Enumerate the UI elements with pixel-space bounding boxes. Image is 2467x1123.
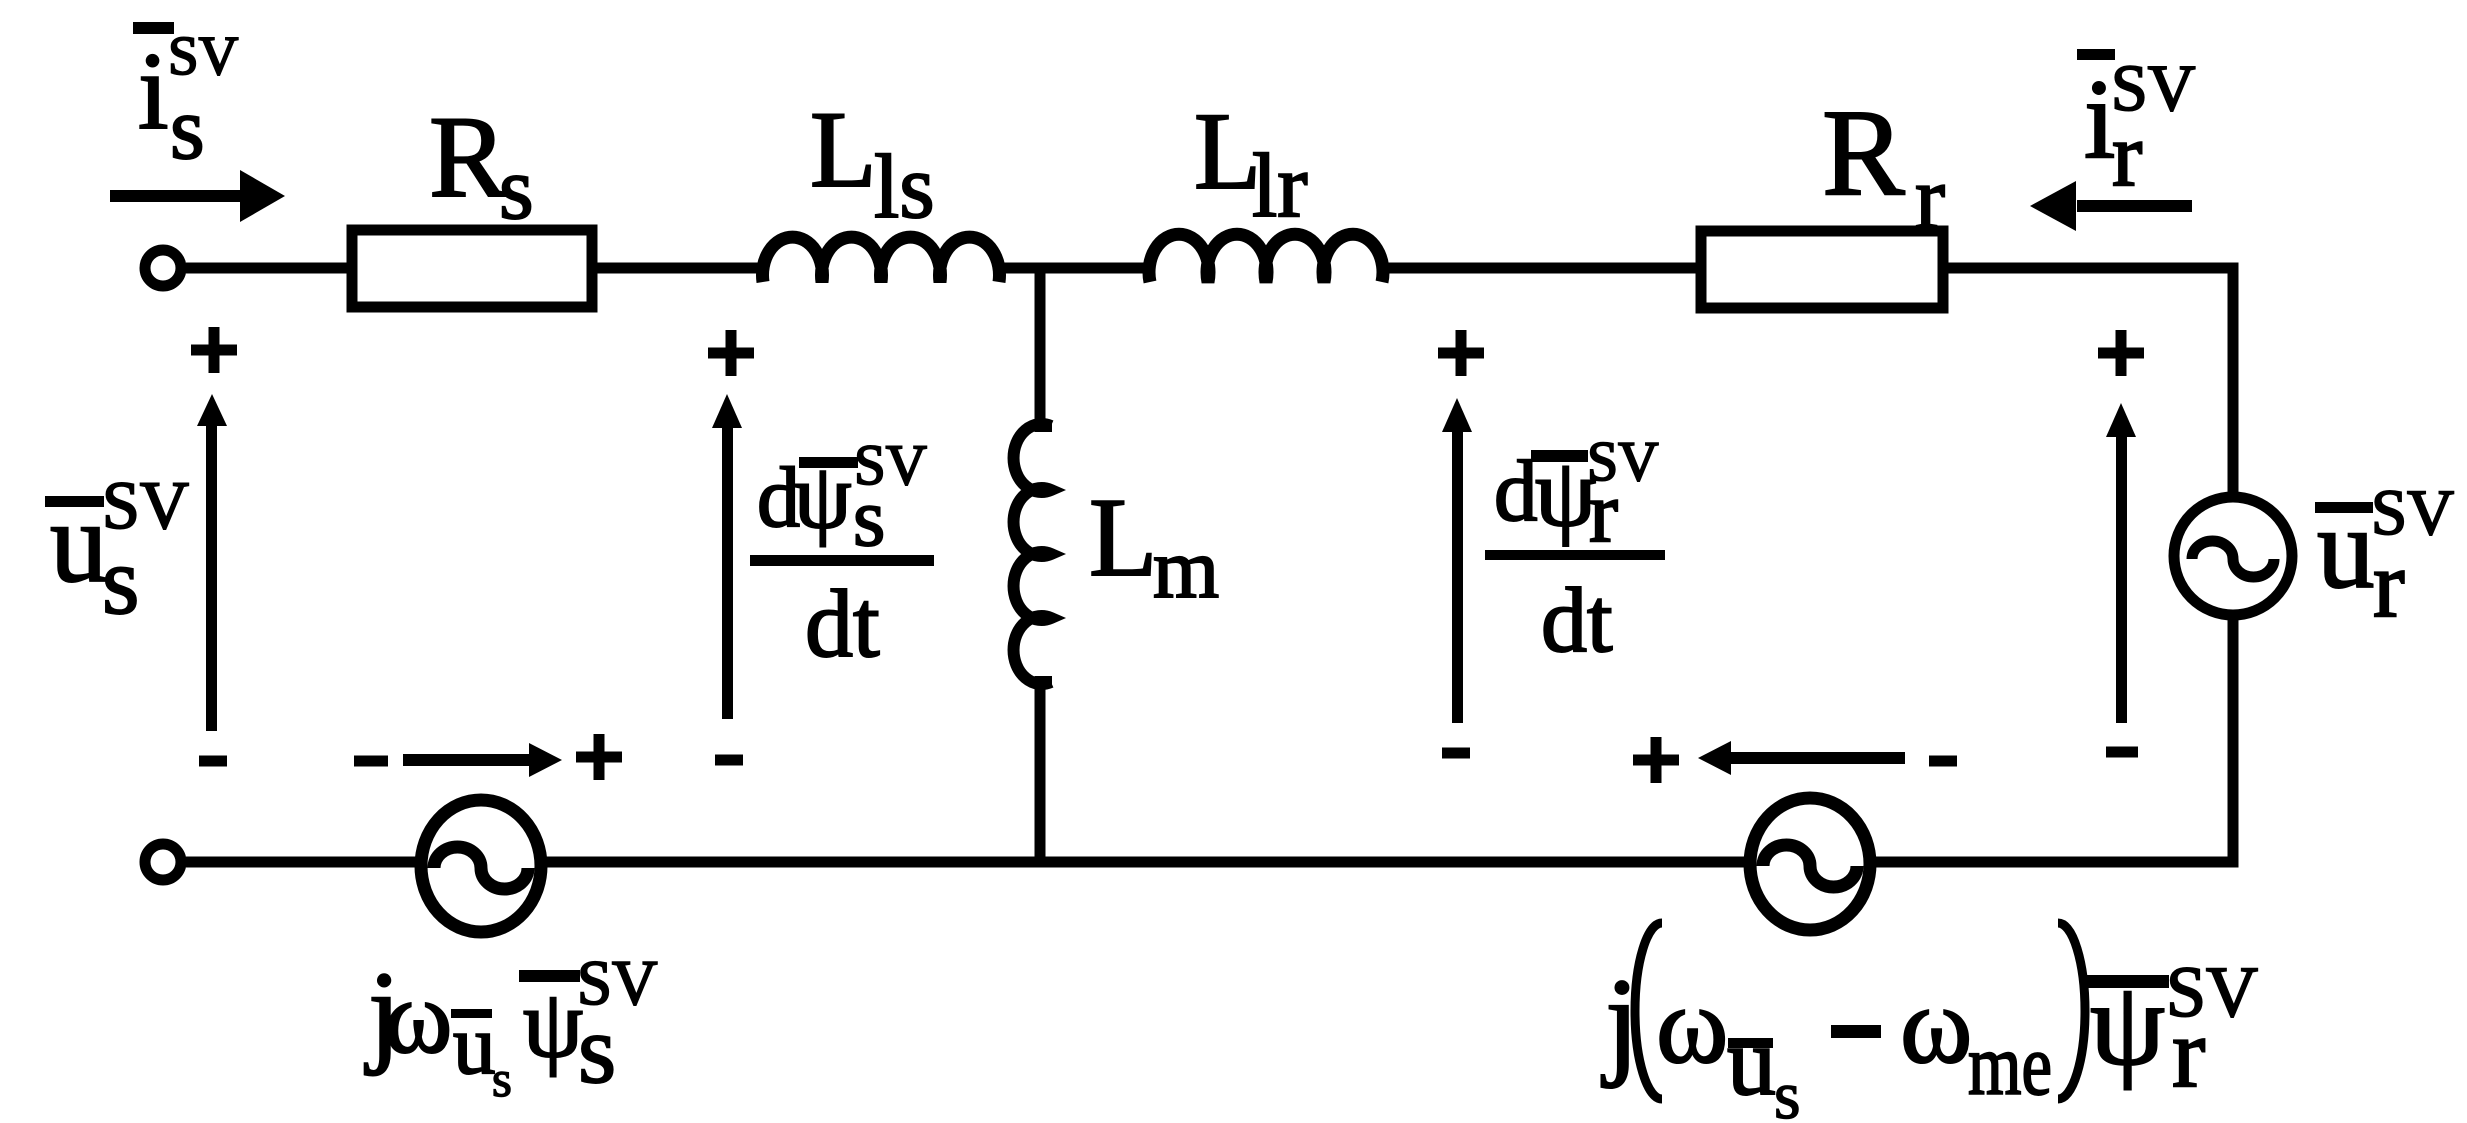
svg-text:r: r (2112, 104, 2142, 205)
svg-text:dt: dt (1541, 569, 1613, 671)
svg-text:s: s (1774, 1057, 1800, 1123)
wire below u_r source (1876, 615, 2233, 862)
svg-text:m: m (1153, 522, 1219, 616)
sine of u_r (2192, 541, 2274, 577)
svg-text:r: r (1915, 149, 1945, 248)
svg-text:me: me (1968, 1016, 2052, 1113)
resistor R_r (1701, 231, 1943, 308)
svg-text:ω: ω (1656, 964, 1728, 1086)
plus right source (1633, 737, 1679, 783)
minus dpsi_r (1442, 748, 1470, 759)
terminal stator top (145, 250, 181, 286)
wire top-left (186, 263, 352, 274)
label fraction dpsi_s/dt (750, 434, 934, 677)
wire bottom middle (546, 857, 1749, 868)
svg-text:L: L (810, 89, 877, 210)
voltage source jw psi_s circle (421, 800, 541, 932)
svg-text:SV: SV (168, 25, 239, 86)
svg-text:s: s (578, 996, 616, 1104)
label i_r^SV (2077, 49, 2195, 205)
label R_s (429, 93, 534, 238)
plus left source (576, 734, 622, 780)
current arrow i_s (110, 190, 243, 202)
inductor L_ls (762, 237, 999, 282)
label j(w_us - w_me) psi_r^SV (1601, 923, 2258, 1123)
wire bottom left (186, 857, 416, 868)
terminal stator bottom (145, 844, 181, 880)
plus u_s (191, 327, 237, 373)
svg-text:s: s (853, 471, 885, 563)
svg-text:u: u (453, 998, 496, 1092)
svg-text:d: d (1494, 442, 1538, 539)
plus dpsi_r (1438, 330, 1484, 376)
minus u_s (199, 756, 227, 767)
wire Rs to Lls (592, 263, 766, 274)
current arrow i_r (2077, 200, 2192, 212)
plus dpsi_s (708, 330, 754, 376)
svg-text:lr: lr (1252, 135, 1308, 236)
label u_r^SV (2315, 477, 2454, 637)
svg-text:ls: ls (874, 136, 935, 237)
svg-text:L: L (1089, 476, 1157, 600)
svg-text:s: s (170, 80, 205, 178)
inductor L_m (1014, 424, 1051, 684)
minus left of left arrow (354, 756, 388, 767)
sine of left source (434, 847, 528, 889)
wire Llr to Rr (1379, 263, 1706, 274)
label jw_us psi_s^SV (364, 948, 658, 1108)
svg-text:s: s (492, 1052, 512, 1108)
plus u_r (2098, 330, 2144, 376)
voltage source j(w-wme)psi_r circle (1750, 798, 1870, 930)
wire Rr to corner and down (1943, 268, 2233, 498)
minus u_r (2106, 747, 2138, 758)
inductor L_lr (1149, 234, 1383, 282)
label L_m (1089, 476, 1219, 616)
wire Lls to node to Llr (996, 263, 1154, 274)
label R_r (1822, 84, 1945, 248)
voltage arrow u_r right (2116, 435, 2127, 723)
voltage source u_r circle (2174, 497, 2292, 615)
svg-text:r: r (1589, 463, 1618, 560)
polarity arrow left source (403, 754, 529, 766)
svg-text:R: R (429, 93, 507, 222)
svg-text:i: i (138, 30, 169, 152)
voltage arrow u_s (206, 424, 217, 731)
polarity arrow right source (1731, 752, 1905, 764)
svg-text:u: u (1727, 1008, 1776, 1116)
voltage arrow dpsi_s/dt (722, 426, 733, 719)
svg-text:ψ: ψ (2090, 957, 2165, 1090)
wire node vertical (1035, 268, 1046, 432)
resistor R_s (352, 230, 592, 307)
label fraction dpsi_r/dt (1485, 431, 1665, 671)
L_m top stub (1038, 420, 1052, 432)
svg-text:r: r (2172, 997, 2205, 1108)
label L_ls (810, 89, 935, 237)
label i_s^SV (133, 22, 239, 178)
svg-text:ω: ω (1900, 964, 1972, 1086)
label u_s^SV (45, 467, 189, 634)
L_m bottom stub (1038, 676, 1052, 688)
svg-text:R: R (1822, 84, 1905, 221)
sine of right source (1763, 845, 1857, 887)
svg-text:u: u (2317, 485, 2375, 612)
svg-text:ψ: ψ (523, 970, 583, 1077)
svg-text:dt: dt (805, 570, 880, 677)
svg-text:ω: ω (384, 960, 452, 1075)
svg-text:u: u (50, 479, 108, 606)
wire below Lm (1035, 676, 1046, 862)
voltage arrow dpsi_r/dt (1452, 430, 1463, 723)
label L_lr (1194, 90, 1308, 236)
minus right of right arrow (1929, 756, 1957, 767)
minus dpsi_s (715, 755, 743, 766)
svg-text:r: r (2373, 531, 2405, 637)
svg-text:s: s (102, 527, 139, 634)
svg-text:s: s (499, 140, 534, 238)
